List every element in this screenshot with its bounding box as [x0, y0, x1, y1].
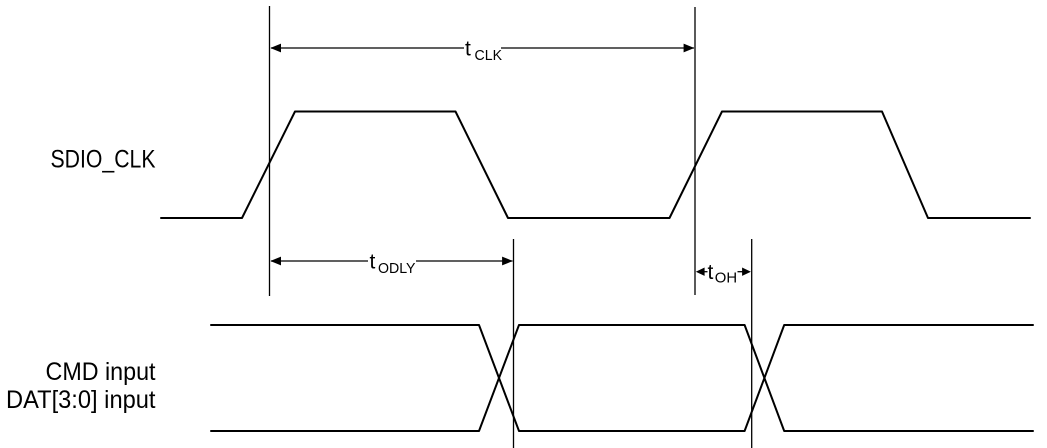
svg-text:t: t — [370, 250, 376, 273]
wire tODLY dimension line right segment — [416, 260, 513, 262]
wire tODLY left arrowhead — [270, 257, 281, 266]
svg-text:t: t — [708, 261, 714, 284]
wire data bus waveform upper path — [211, 325, 1033, 431]
wire tODLY right arrowhead — [502, 257, 513, 266]
node marker line at first clock rising edge — [269, 6, 271, 296]
svg-text:CLK: CLK — [475, 48, 503, 64]
svg-text:ODLY: ODLY — [378, 261, 416, 277]
node marker line at tODLY data transition — [513, 239, 515, 448]
node marker line at tOH data transition — [751, 239, 753, 448]
wire tODLY dimension line left segment — [271, 260, 368, 262]
wire tCLK dimension line right segment — [501, 47, 694, 49]
wire tOH right arrow tail — [738, 271, 746, 273]
wire tCLK right arrowhead — [684, 44, 695, 53]
wire tCLK dimension line left segment — [271, 47, 464, 49]
wire SDIO_CLK clock waveform — [161, 112, 1030, 219]
svg-text:SDIO_CLK: SDIO_CLK — [51, 146, 156, 174]
svg-text:t: t — [465, 37, 471, 60]
svg-text:DAT[3:0] input: DAT[3:0] input — [6, 386, 156, 414]
node marker line at second clock rising edge — [694, 7, 696, 295]
wire data bus waveform lower path — [211, 325, 1033, 431]
wire tOH right arrowhead pointing right — [742, 268, 751, 276]
svg-text:OH: OH — [715, 271, 737, 287]
svg-text:CMD input: CMD input — [46, 358, 156, 386]
wire tCLK left arrowhead — [270, 44, 281, 53]
wire tOH left arrow tail — [702, 271, 708, 273]
wire tOH left arrowhead pointing left — [696, 268, 705, 276]
